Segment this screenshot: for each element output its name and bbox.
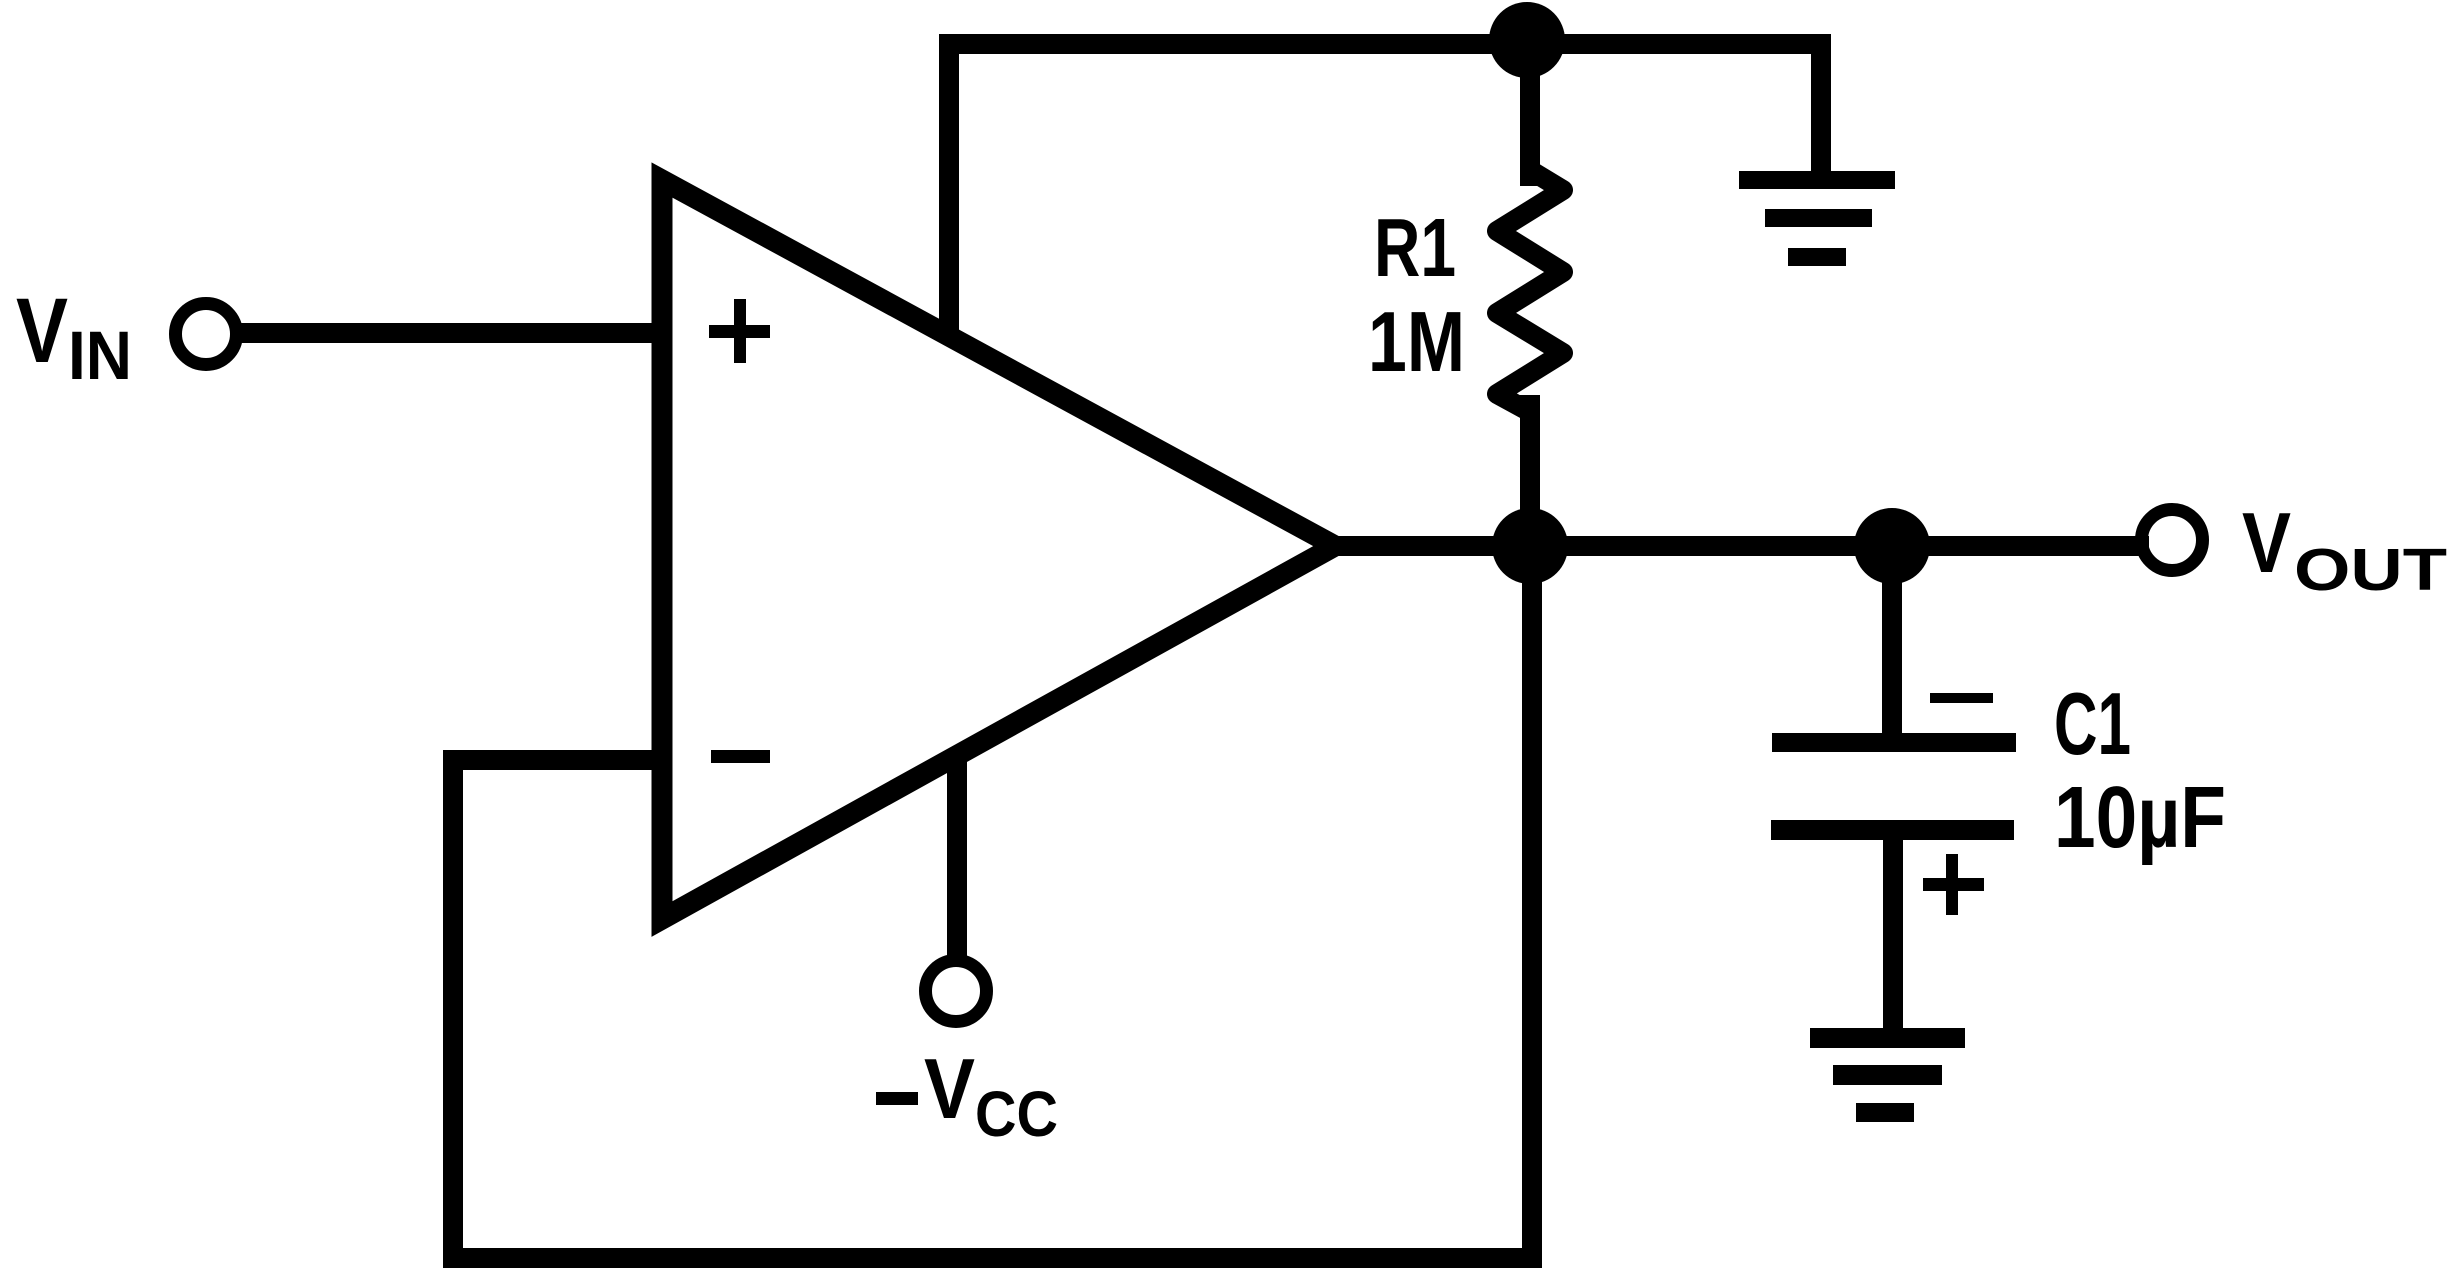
capacitor C1 bbox=[1771, 733, 2016, 840]
wire Vout junction to C1 bbox=[1882, 546, 1902, 735]
wire op-amp inverting input bbox=[453, 750, 660, 770]
svg-text:V: V bbox=[924, 1042, 975, 1137]
svg-text:C1: C1 bbox=[2054, 674, 2131, 773]
resistor R1 bbox=[1497, 170, 1563, 412]
wire R1 top lead bbox=[1520, 50, 1540, 176]
wire feedback bottom bbox=[453, 1248, 1532, 1268]
label -Vcc bbox=[876, 1042, 1058, 1150]
svg-text:1M: 1M bbox=[1368, 295, 1465, 390]
wire op-amp V+ pin to top rail bbox=[939, 44, 959, 330]
wire ground stem top right bbox=[1811, 44, 1831, 175]
svg-text:OUT: OUT bbox=[2294, 537, 2447, 603]
node output junction bbox=[1492, 508, 1568, 584]
node top junction bbox=[1489, 2, 1565, 78]
svg-text:V: V bbox=[16, 280, 68, 382]
wire top rail bbox=[949, 34, 1821, 54]
op-amp U1 bbox=[662, 180, 1335, 919]
svg-text:10µF: 10µF bbox=[2054, 769, 2226, 866]
wire output rail bbox=[1335, 536, 2139, 556]
terminal VOUT bbox=[2142, 510, 2203, 571]
label VOUT bbox=[2242, 496, 2447, 603]
wire -Vcc stem bbox=[947, 763, 967, 957]
wire feedback right bbox=[1522, 546, 1542, 1258]
wire feedback left bbox=[443, 760, 463, 1258]
wire VIN to op-amp noninverting input bbox=[243, 323, 660, 343]
svg-text:R1: R1 bbox=[1374, 201, 1456, 294]
C1 plus polarity mark bbox=[1923, 854, 1984, 915]
ground bottom bbox=[1810, 1028, 1965, 1122]
ground top right bbox=[1739, 171, 1895, 266]
C1 minus polarity mark bbox=[1930, 693, 1993, 703]
svg-text:V: V bbox=[2242, 496, 2291, 591]
op-amp - input marker bbox=[711, 750, 770, 763]
svg-text:IN: IN bbox=[68, 317, 132, 394]
wire C1 to ground bbox=[1883, 838, 1903, 1030]
label VIN bbox=[16, 280, 132, 394]
terminal -Vcc bbox=[926, 961, 987, 1022]
op-amp + input marker bbox=[709, 299, 770, 363]
wire R1 bottom lead bbox=[1520, 405, 1540, 555]
node Vout junction bbox=[1854, 508, 1930, 584]
terminal VIN bbox=[176, 304, 237, 365]
svg-text:CC: CC bbox=[975, 1078, 1058, 1150]
